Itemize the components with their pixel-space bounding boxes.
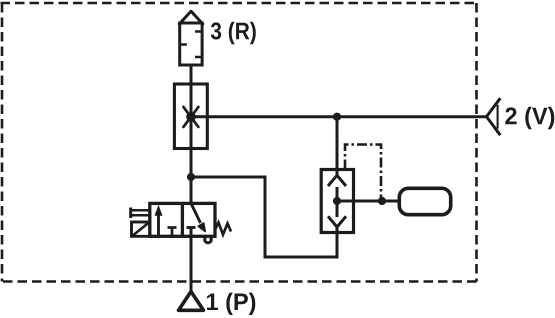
valve V1 return spring: [215, 223, 231, 235]
port label 1 (P): [207, 293, 255, 315]
valve V1 body (3/2 valve): [150, 203, 215, 236]
air reservoir capsule: [399, 188, 450, 214]
throttle valve (restrictor): [174, 84, 207, 149]
pilot dash-dot line: [345, 145, 381, 200]
enclosure dashed border: [1, 3, 477, 282]
valve V1 exhaust diagonal arrow (right box): [191, 203, 205, 231]
valve V1 plunger actuator: [130, 208, 150, 219]
wire: node C to bottom of valve V2: [191, 177, 337, 257]
wire: vertical through throttle down to valve V1: [190, 85, 193, 204]
valve V1 blocked port T (right box): [187, 226, 196, 229]
valve V1 relief circle: [205, 236, 212, 243]
node C junction dot: [187, 173, 195, 181]
valve V2 up chevron: [328, 175, 346, 186]
wire: silencer to throttle: [190, 64, 193, 85]
junction dot at throttle center: [186, 112, 196, 122]
silencer 3(R): [179, 11, 203, 65]
node D junction dot: [378, 197, 386, 205]
valve V1 blocked port T (left box): [168, 228, 177, 237]
valve V1 lever actuator box: [132, 222, 150, 236]
valve V2 down chevron: [328, 216, 346, 227]
valve V2 center junction dot: [333, 197, 341, 205]
wire: down from node B to valve V2: [336, 117, 339, 170]
node B junction dot: [333, 113, 341, 121]
valve V2 internal line segments: [336, 170, 339, 233]
wire: valve V2 center to reservoir: [337, 200, 399, 203]
wire: supply line down to port 1: [190, 228, 193, 293]
port label 2 (V): [505, 107, 554, 129]
valve V2 body (pilot valve): [321, 170, 353, 233]
port label 3 (R): [211, 22, 256, 44]
wire: main horizontal line to port 2: [191, 115, 487, 118]
valve V1 flow arrow (left box): [155, 205, 163, 237]
port 2 triangle symbol: [487, 98, 501, 135]
port 1 triangle symbol: [179, 292, 204, 311]
